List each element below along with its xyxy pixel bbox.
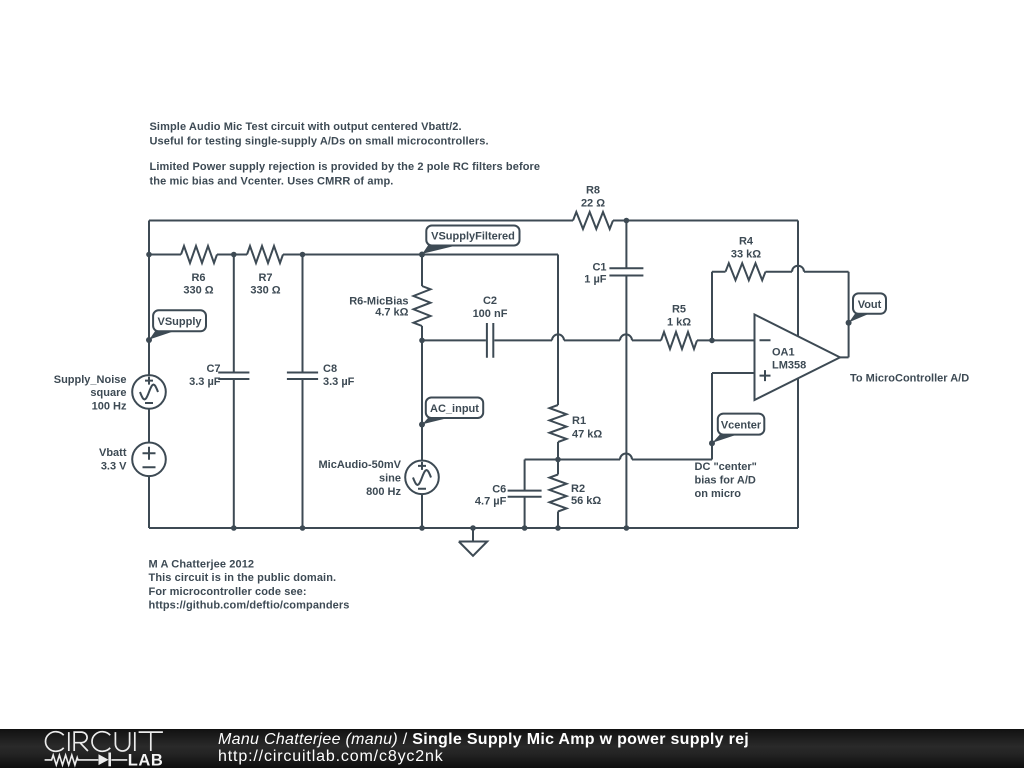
text To MicroController A/D [850, 373, 969, 385]
svg-text:33 kΩ: 33 kΩ [731, 249, 761, 261]
svg-text:C6: C6 [492, 484, 506, 496]
wire left rail [148, 221, 150, 529]
resistor R5 [661, 304, 697, 350]
wire AC input branch [421, 340, 423, 460]
svg-text:square: square [90, 387, 126, 399]
wire Vcenter vertical [711, 373, 713, 460]
svg-text:3.3 µF: 3.3 µF [323, 376, 355, 388]
svg-text:https://github.com/deftio/comp: https://github.com/deftio/companders [149, 600, 350, 612]
svg-text:VSupplyFiltered: VSupplyFiltered [431, 231, 515, 243]
svg-text:M A Chatterjee 2012: M A Chatterjee 2012 [149, 558, 255, 570]
text title block [150, 121, 541, 187]
svg-text:1 kΩ: 1 kΩ [667, 316, 691, 328]
svg-text:R6: R6 [191, 272, 205, 284]
svg-text:AC_input: AC_input [430, 403, 479, 415]
junction dot mic bias node [419, 338, 425, 344]
ground [459, 525, 487, 556]
wire R4 branch vertical [711, 272, 713, 341]
svg-text:C8: C8 [323, 363, 337, 375]
svg-text:R5: R5 [672, 304, 686, 316]
svg-text:56 kΩ: 56 kΩ [571, 495, 601, 507]
footer bar [0, 729, 1024, 768]
svg-text:1 µF: 1 µF [584, 273, 607, 285]
wire bottom rail [149, 527, 798, 529]
source MicAudio-50mV [318, 459, 438, 531]
svg-text:To MicroController A/D: To MicroController A/D [850, 373, 969, 385]
svg-text:100 nF: 100 nF [473, 308, 508, 320]
source Vbatt [99, 443, 166, 477]
svg-text:R4: R4 [739, 236, 754, 248]
svg-text:Vcenter: Vcenter [721, 419, 762, 431]
svg-text:4.7 kΩ: 4.7 kΩ [375, 307, 408, 319]
svg-text:330 Ω: 330 Ω [250, 285, 280, 297]
svg-text:VSupply: VSupply [157, 316, 202, 328]
junction dot left rail / filter row [146, 252, 152, 258]
resistor R2 [550, 457, 602, 531]
svg-text:Supply_Noise: Supply_Noise [54, 374, 127, 386]
text DC center bias note [695, 461, 757, 500]
CircuitLab logo [0, 729, 200, 768]
resistor R6 [181, 246, 217, 297]
svg-text:the mic bias and Vcenter. Uses: the mic bias and Vcenter. Uses CMRR of a… [150, 175, 394, 187]
svg-text:Limited Power supply rejection: Limited Power supply rejection is provid… [150, 161, 541, 173]
svg-text:R1: R1 [572, 415, 586, 427]
svg-text:R8: R8 [586, 185, 600, 197]
wire output feedback vertical [840, 272, 849, 358]
capacitor C2 [473, 295, 508, 358]
svg-text:R7: R7 [258, 272, 272, 284]
svg-text:3.3 V: 3.3 V [101, 461, 127, 473]
wire mic bias filter row [149, 254, 558, 256]
svg-text:LAB: LAB [128, 751, 164, 768]
svg-text:100 Hz: 100 Hz [92, 401, 127, 413]
svg-text:C7: C7 [206, 363, 220, 375]
svg-text:OA1: OA1 [772, 347, 795, 359]
node label AC_input [419, 398, 483, 428]
resistor R1 [550, 405, 603, 460]
node label VSupplyFiltered [419, 226, 520, 258]
svg-text:3.3 µF: 3.3 µF [189, 376, 221, 388]
svg-text:R2: R2 [571, 483, 585, 495]
svg-text:bias for A/D: bias for A/D [695, 475, 756, 487]
svg-text:Useful for testing single-supp: Useful for testing single-supply A/Ds on… [150, 135, 489, 147]
svg-text:C1: C1 [592, 262, 606, 274]
svg-text:on micro: on micro [695, 488, 742, 500]
svg-text:4.7 µF: 4.7 µF [475, 496, 507, 508]
capacitor C1 [584, 218, 643, 531]
resistor R6-MicBias [349, 255, 430, 341]
capacitor C8 [287, 252, 355, 531]
svg-text:800 Hz: 800 Hz [366, 486, 401, 498]
svg-text:This circuit is in the public: This circuit is in the public domain. [149, 572, 337, 584]
svg-text:C2: C2 [483, 295, 497, 307]
svg-text:Simple Audio Mic Test circuit: Simple Audio Mic Test circuit with outpu… [150, 121, 462, 133]
capacitor C6 [475, 484, 542, 531]
wire R1 branch [557, 255, 559, 406]
capacitor C7 [189, 252, 249, 531]
text credits [149, 558, 350, 611]
node label VSupply [146, 310, 206, 343]
svg-text:22 Ω: 22 Ω [581, 198, 605, 210]
svg-text:330 Ω: 330 Ω [183, 285, 213, 297]
svg-text:Vbatt: Vbatt [99, 447, 127, 459]
wire top rail [149, 220, 798, 222]
resistor R7 [247, 246, 283, 297]
source Supply_Noise [54, 374, 166, 413]
wire right vertical rail [797, 221, 799, 529]
node label Vout [846, 293, 886, 325]
junction dot inverting node [709, 338, 715, 344]
wire noninverting input [712, 372, 755, 374]
resistor R4 [712, 236, 849, 281]
wire C2 row to op-amp inverting input [422, 334, 755, 340]
resistor R8 [573, 185, 613, 230]
footer text [218, 731, 749, 749]
svg-text:R6-MicBias: R6-MicBias [349, 295, 408, 307]
wire Vcenter row [525, 454, 712, 491]
svg-text:sine: sine [379, 473, 401, 485]
node label Vcenter [709, 414, 764, 447]
svg-text:47 kΩ: 47 kΩ [572, 428, 602, 440]
svg-text:MicAudio-50mV: MicAudio-50mV [318, 459, 401, 471]
svg-text:For microcontroller code see:: For microcontroller code see: [149, 586, 307, 598]
svg-text:LM358: LM358 [772, 359, 806, 371]
svg-text:DC "center": DC "center" [695, 461, 757, 473]
svg-text:Vout: Vout [858, 299, 882, 311]
op-amp OA1 [755, 315, 841, 401]
